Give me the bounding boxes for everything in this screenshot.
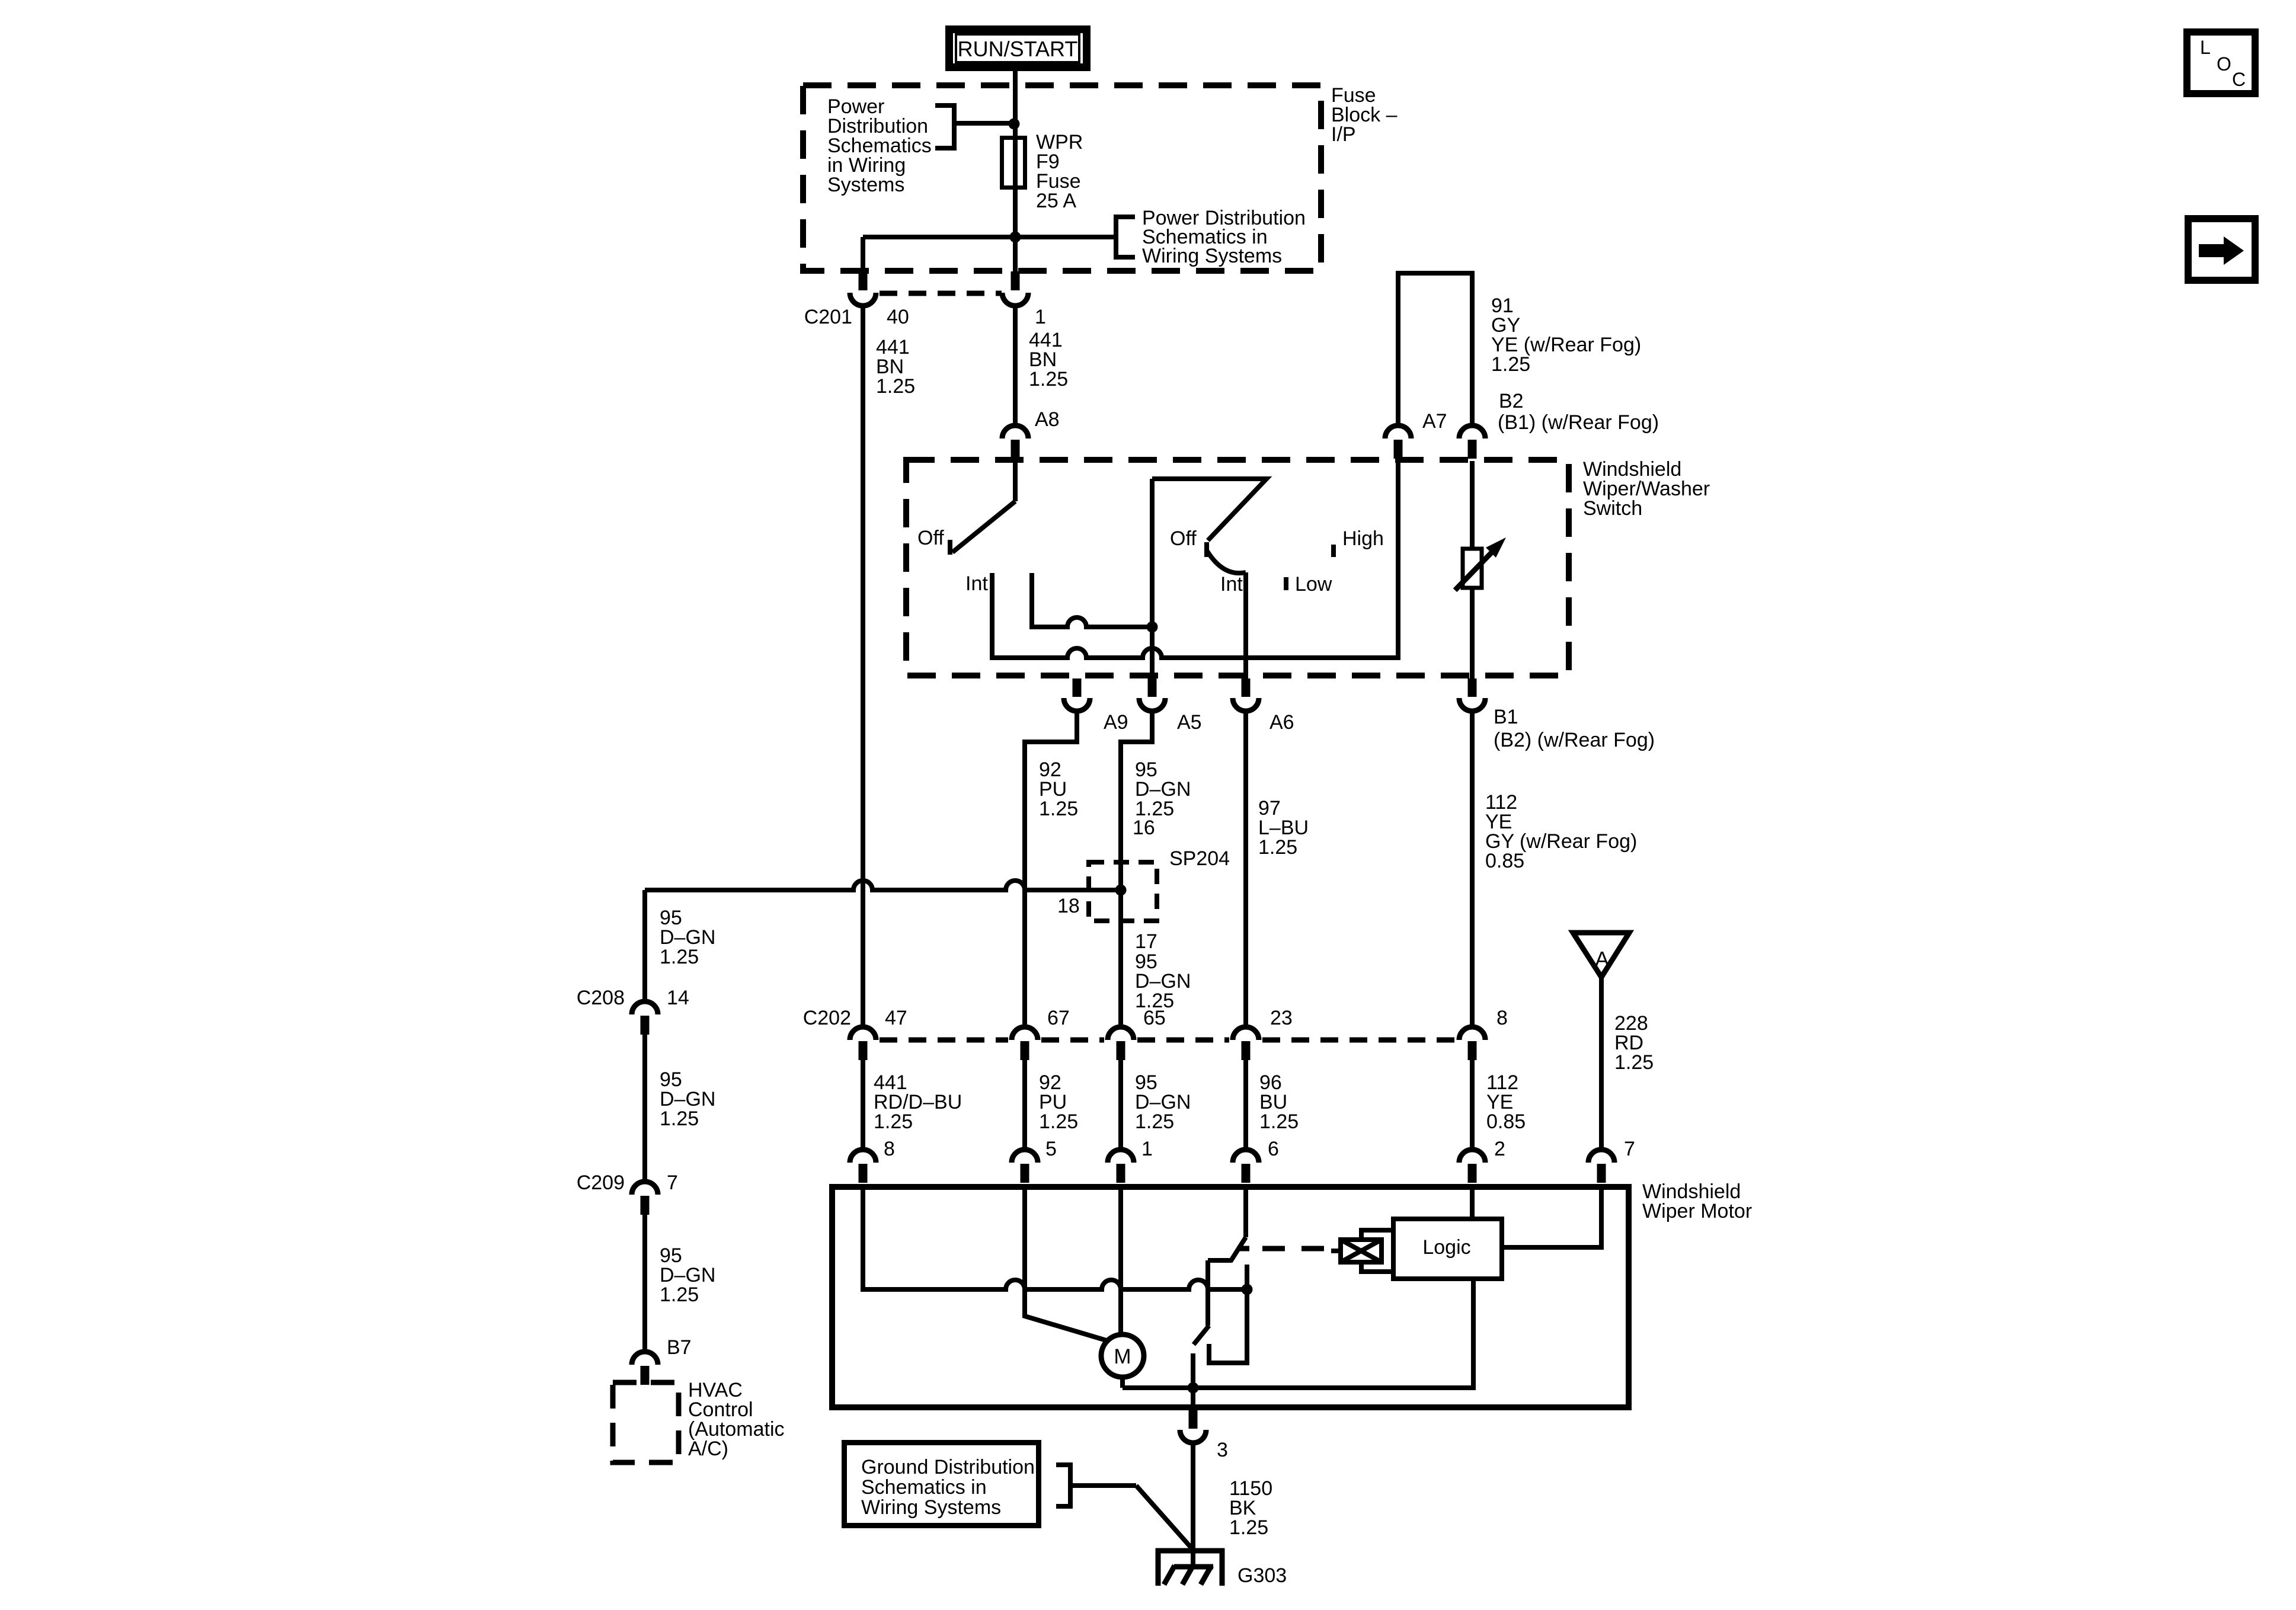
switch arm bar and blade (middle switch)	[1152, 479, 1267, 540]
svg-text:A6: A6	[1269, 711, 1294, 734]
logic box	[1393, 1219, 1502, 1279]
label pin 47	[885, 1007, 907, 1029]
wire pin 6 park switch feed	[1243, 1185, 1248, 1237]
svg-text:RUN/START: RUN/START	[958, 37, 1078, 61]
connector line C201	[880, 291, 1002, 296]
svg-text:5: 5	[1045, 1138, 1057, 1160]
svg-text:1.25: 1.25	[660, 946, 699, 968]
wire 92 PU to motor	[1022, 1060, 1027, 1150]
label pin 14	[667, 987, 689, 1009]
page symbol LOC	[2187, 32, 2255, 94]
label pin 1	[1035, 306, 1046, 328]
page symbol arrow	[2188, 219, 2255, 280]
svg-text:1: 1	[1035, 306, 1046, 328]
svg-text:Wiring Systems: Wiring Systems	[1142, 245, 1282, 267]
fuse F9 WPR 25A	[1002, 136, 1025, 190]
wire C209 to B7	[642, 1215, 647, 1352]
label SP204	[1169, 847, 1230, 870]
connector B7	[632, 1352, 658, 1385]
park switch sense tick	[1239, 1246, 1249, 1251]
motor pin 7 connector	[1588, 1150, 1614, 1183]
label motor pin 6	[1268, 1138, 1279, 1160]
connector C202 pin 47	[850, 1027, 876, 1060]
connector C201 pin 40	[850, 271, 876, 306]
connector B1	[1459, 678, 1485, 711]
wire splice rail to HVAC branch	[645, 881, 1121, 890]
wire park contact to pin 3	[1191, 1388, 1195, 1410]
ground G303	[1156, 1548, 1224, 1586]
switch blade curve Off to Int (middle switch)	[1206, 549, 1246, 573]
wire A5 riser in switch	[1150, 479, 1155, 678]
svg-text:C201: C201	[804, 306, 852, 328]
label wire 92 PU 1.25	[1039, 758, 1078, 820]
label motor pin 5	[1045, 1138, 1057, 1160]
wire variable resistor to B1	[1470, 588, 1475, 678]
label pin 65	[1143, 1007, 1166, 1029]
label Windshield Wiper/Washer Switch	[1583, 458, 1710, 520]
svg-text:A9: A9	[1104, 711, 1128, 734]
label High	[1342, 527, 1384, 550]
label HVAC Control (Automatic A/C)	[688, 1379, 785, 1460]
svg-text:23: 23	[1270, 1007, 1293, 1029]
svg-text:I/P: I/P	[1331, 123, 1356, 146]
label Windshield Wiper Motor	[1642, 1180, 1752, 1222]
wire A8 into switch	[1013, 461, 1018, 501]
svg-text:40: 40	[887, 306, 909, 328]
splice SP204 dashed box	[1089, 862, 1157, 921]
connector C202 pin 67	[1012, 1027, 1038, 1060]
park switch pivot post	[1205, 1260, 1210, 1326]
fuse block dashed box	[803, 85, 1321, 271]
label wire 95 D-GN 1.25 (branch mid)	[660, 1068, 715, 1130]
triangle connector A	[1573, 933, 1629, 977]
label Off (left)	[917, 527, 944, 549]
wire pin 5 to motor	[1025, 1185, 1108, 1341]
node bottom rail junction	[1188, 1382, 1199, 1394]
connector C208 pin 14	[632, 1001, 658, 1035]
svg-text:6: 6	[1268, 1138, 1279, 1160]
svg-text:O: O	[2217, 53, 2231, 75]
label Int (left)	[965, 572, 988, 595]
label wire 95 D-GN 1.25 (branch top)	[660, 907, 715, 968]
label C209	[577, 1172, 625, 1194]
svg-text:(B1) (w/Rear Fog): (B1) (w/Rear Fog)	[1498, 411, 1659, 434]
svg-text:1.25: 1.25	[660, 1283, 699, 1306]
label pin 40	[887, 306, 909, 328]
svg-text:L: L	[2200, 37, 2211, 58]
connector C202 pin 65	[1108, 1027, 1134, 1060]
connector A5	[1139, 678, 1165, 711]
svg-text:47: 47	[885, 1007, 907, 1029]
wire 441 RD/D-BU to motor	[861, 1060, 865, 1150]
wire fuse block to C201 pin 40	[863, 237, 1015, 273]
svg-text:A8: A8	[1035, 408, 1060, 431]
label A7	[1422, 410, 1447, 433]
wire 1150 BK to ground	[1191, 1443, 1195, 1567]
wire pin 8 bus	[863, 1185, 1247, 1289]
label C208	[577, 987, 625, 1009]
switch blade Off (left switch)	[952, 501, 1015, 552]
label C201	[804, 306, 852, 328]
svg-text:8: 8	[1496, 1007, 1508, 1029]
wire 441 BN from C201-1 to A8	[1013, 306, 1018, 425]
contact High	[1331, 545, 1336, 557]
label A6	[1269, 711, 1294, 734]
svg-text:G303: G303	[1237, 1564, 1287, 1587]
svg-text:High: High	[1342, 527, 1384, 550]
contact Off (middle switch)	[1204, 542, 1209, 557]
wire fuse to C201	[1013, 189, 1018, 273]
svg-text:A/C): A/C)	[688, 1438, 728, 1460]
svg-text:67: 67	[1047, 1007, 1070, 1029]
svg-text:1.25: 1.25	[1259, 1110, 1299, 1133]
label A9	[1104, 711, 1128, 734]
wire C208 to C209	[642, 1035, 647, 1182]
label B1 (B2) (w/Rear Fog)	[1494, 706, 1655, 751]
contact Off (left switch)	[948, 540, 952, 555]
svg-text:16: 16	[1133, 817, 1155, 839]
connector A7	[1385, 425, 1411, 459]
label wire 228 RD 1.25	[1614, 1012, 1654, 1074]
svg-text:C208: C208	[577, 987, 625, 1009]
svg-text:1.25: 1.25	[1135, 1110, 1174, 1133]
label wire 95 D-GN 1.25 (above SP204)	[1135, 758, 1191, 820]
motor M	[1101, 1334, 1144, 1377]
ignition feed box RUN/START	[949, 30, 1087, 68]
svg-text:Low: Low	[1295, 573, 1332, 596]
wire 92 PU from A9	[1025, 711, 1077, 1027]
park switch contact post	[1191, 1353, 1195, 1388]
svg-text:Wiring Systems: Wiring Systems	[861, 1496, 1001, 1519]
svg-text:A: A	[1595, 947, 1609, 971]
svg-text:1.25: 1.25	[660, 1108, 699, 1130]
bracket power distribution schematics (right)	[1114, 215, 1135, 260]
label pin 18	[1057, 895, 1080, 917]
wire pin 7 to logic	[1504, 1185, 1601, 1247]
motor pin 8 connector	[850, 1150, 876, 1183]
connector A9	[1064, 678, 1090, 711]
park switch alternate contact bracket	[1209, 1265, 1247, 1363]
dashed link park switch to logic	[1262, 1246, 1332, 1251]
wire branch to C208	[642, 890, 647, 1001]
node junction at fuse feed	[1009, 119, 1020, 130]
label motor pin 8	[884, 1138, 895, 1160]
wire 112 YE from B1	[1470, 711, 1475, 1027]
svg-text:1.25: 1.25	[1039, 1110, 1078, 1133]
label pin 8 (C202)	[1496, 1007, 1508, 1029]
label wire 95 D-GN 1.25 (below SP204)	[1135, 950, 1191, 1012]
solenoid bowtie symbol	[1331, 1240, 1382, 1262]
label pin 17	[1135, 930, 1157, 953]
motor pin 2 connector	[1459, 1150, 1485, 1183]
svg-text:1.25: 1.25	[1039, 798, 1078, 820]
connector C201 pin 1	[1002, 271, 1028, 306]
svg-text:3: 3	[1217, 1439, 1228, 1461]
svg-text:1.25: 1.25	[1614, 1051, 1654, 1074]
wire pin 1 to motor	[1118, 1185, 1123, 1334]
motor pin 6 connector	[1233, 1150, 1259, 1183]
wire 95 D-GN to motor	[1118, 1060, 1123, 1150]
motor pin 5 connector	[1012, 1150, 1038, 1183]
HVAC control dashed box	[613, 1382, 679, 1462]
wire loop A7 to B2	[1398, 273, 1472, 425]
label motor pin 2	[1494, 1138, 1505, 1160]
svg-text:M: M	[1114, 1345, 1131, 1368]
wire branch to power distribution bracket (right)	[1015, 235, 1116, 239]
svg-text:8: 8	[884, 1138, 895, 1160]
label C202	[803, 1007, 851, 1029]
svg-text:Schematics in: Schematics in	[861, 1476, 987, 1499]
label motor pin 1	[1141, 1138, 1153, 1160]
label pin 23	[1270, 1007, 1293, 1029]
svg-text:0.85: 0.85	[1486, 1110, 1526, 1133]
wire RUN/START to fuse	[1013, 70, 1018, 146]
svg-text:Logic: Logic	[1422, 1236, 1470, 1259]
wire branch to power distribution bracket	[954, 121, 1015, 126]
svg-text:1.25: 1.25	[1258, 836, 1297, 859]
node bus to park contact	[1242, 1284, 1253, 1295]
label wire 95 D-GN 1.25 (branch bottom)	[660, 1244, 715, 1306]
svg-text:18: 18	[1057, 895, 1080, 917]
label wire 1150 BK 1.25	[1229, 1477, 1272, 1539]
svg-text:Wiper Motor: Wiper Motor	[1642, 1200, 1752, 1222]
variable resistor arrow	[1455, 537, 1506, 590]
svg-text:0.85: 0.85	[1485, 850, 1524, 872]
label wire 97 L-BU 1.25	[1258, 797, 1309, 859]
label wire 441 BN 1.25 (left)	[876, 336, 915, 398]
svg-text:(B2) (w/Rear Fog): (B2) (w/Rear Fog)	[1494, 729, 1655, 751]
svg-text:17: 17	[1135, 930, 1157, 953]
svg-text:14: 14	[667, 987, 689, 1009]
label wire 92 PU 1.25 (lower)	[1039, 1071, 1078, 1133]
svg-text:Off: Off	[917, 527, 944, 549]
variable resistor (delay)	[1463, 549, 1482, 588]
label Power Distribution Schematics in Wiring Systems (left)	[827, 95, 932, 196]
svg-text:Ground Distribution: Ground Distribution	[861, 1456, 1035, 1478]
contact wire to upper rail (left switch)	[1032, 573, 1152, 627]
connector B2	[1459, 425, 1485, 459]
label Fuse Block - I/P	[1331, 84, 1398, 146]
svg-text:B1: B1	[1494, 706, 1518, 728]
label Power Distribution Schematics in Wiring Systems (right)	[1142, 207, 1306, 267]
label G303	[1237, 1564, 1287, 1587]
wire 96 BU to motor	[1243, 1060, 1248, 1150]
wire 112 YE to motor	[1470, 1060, 1475, 1150]
svg-text:A7: A7	[1422, 410, 1447, 433]
node splice junction SP204	[1115, 885, 1127, 896]
label Low	[1295, 573, 1332, 596]
svg-text:1.25: 1.25	[874, 1110, 913, 1133]
label pin 3	[1217, 1439, 1228, 1461]
contact Int wire to lower rail (left switch)	[992, 461, 1398, 658]
wire 441 BN from C201-40	[861, 306, 865, 1027]
label wire 441 RD/D-BU 1.25	[874, 1071, 962, 1133]
connector C202 pin 23	[1233, 1027, 1259, 1060]
park switch blade upper	[1230, 1237, 1246, 1262]
label wire 91 GY YE 1.25	[1491, 295, 1641, 376]
label A8	[1035, 408, 1060, 431]
park switch pivot link	[1208, 1258, 1232, 1263]
connector A8	[1002, 425, 1028, 459]
label Int (middle)	[1220, 573, 1243, 596]
connector A6	[1233, 678, 1259, 711]
svg-text:B7: B7	[667, 1336, 692, 1359]
label wire 112 YE 0.85	[1486, 1071, 1526, 1133]
motor pin 1 connector	[1108, 1150, 1134, 1183]
svg-text:Int: Int	[965, 572, 988, 595]
wire motor to bottom rail	[1120, 1377, 1125, 1388]
connector C209 pin 7	[632, 1182, 658, 1215]
windshield wiper/washer switch dashed box	[906, 460, 1569, 676]
label pin 67	[1047, 1007, 1070, 1029]
label Off (middle)	[1170, 527, 1197, 550]
svg-text:A5: A5	[1177, 711, 1202, 734]
svg-text:1.25: 1.25	[1029, 368, 1068, 391]
wire 228 RD from triangle A	[1599, 977, 1604, 1150]
svg-text:1.25: 1.25	[1229, 1516, 1268, 1539]
node junction below fuse	[1010, 232, 1021, 243]
svg-text:7: 7	[1624, 1138, 1635, 1160]
ground distribution schematics box	[845, 1443, 1039, 1526]
wire Int contact to A6	[1243, 572, 1248, 678]
wire pin 2 to logic	[1470, 1185, 1475, 1217]
svg-text:Switch: Switch	[1583, 497, 1642, 520]
label pin 7 (C209)	[667, 1172, 678, 1194]
label motor pin 7	[1624, 1138, 1635, 1160]
svg-text:SP204: SP204	[1169, 847, 1230, 870]
connector line C202	[880, 1038, 1456, 1043]
svg-text:C209: C209	[577, 1172, 625, 1194]
park switch blade lower	[1194, 1326, 1209, 1345]
label wire 95 D-GN 1.25 (lower)	[1135, 1071, 1191, 1133]
svg-text:1.25: 1.25	[876, 375, 915, 398]
label B7	[667, 1336, 692, 1359]
svg-text:2: 2	[1494, 1138, 1505, 1160]
bracket ground distribution	[1056, 1462, 1073, 1509]
label wire 96 BU 1.25	[1259, 1071, 1299, 1133]
svg-text:B2: B2	[1499, 390, 1524, 412]
logic collar bracket	[1361, 1230, 1391, 1272]
label wire 441 BN 1.25 (right)	[1029, 329, 1068, 391]
connector C202 pin 8	[1459, 1027, 1485, 1060]
label wire 112 YE GY 0.85	[1485, 791, 1637, 872]
wire ground distribution branch	[1070, 1486, 1191, 1548]
windshield wiper motor box	[832, 1187, 1629, 1407]
label pin 16	[1133, 817, 1155, 839]
label WPR F9 Fuse 25 A	[1036, 131, 1083, 212]
svg-text:Off: Off	[1170, 527, 1197, 550]
svg-text:25 A: 25 A	[1036, 190, 1076, 212]
svg-text:C: C	[2232, 69, 2246, 90]
svg-text:Int: Int	[1220, 573, 1243, 596]
motor pin 3 connector	[1180, 1410, 1206, 1443]
wire B2 to variable resistor	[1470, 461, 1475, 549]
label A5	[1177, 711, 1202, 734]
svg-text:7: 7	[667, 1172, 678, 1194]
svg-text:1.25: 1.25	[1491, 353, 1530, 376]
svg-text:1: 1	[1141, 1138, 1153, 1160]
wire bottom rail	[1123, 1281, 1473, 1388]
svg-text:65: 65	[1143, 1007, 1166, 1029]
wire 95 D-GN from A5 through SP204	[1121, 711, 1152, 1027]
contact Low	[1284, 577, 1288, 590]
node junction on wire A5	[1147, 622, 1158, 633]
svg-text:C202: C202	[803, 1007, 851, 1029]
bracket power distribution schematics (left)	[935, 103, 957, 151]
label B2 (B1) (w/Rear Fog)	[1498, 390, 1659, 434]
svg-text:Systems: Systems	[827, 174, 904, 196]
wire 97 L-BU from A6	[1243, 711, 1248, 1027]
